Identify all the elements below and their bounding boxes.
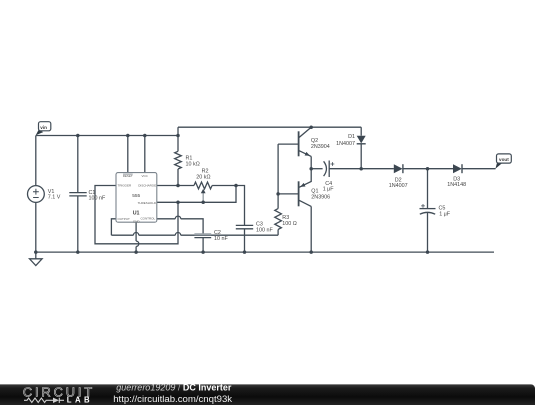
svg-text:1N4007: 1N4007 (389, 183, 408, 189)
svg-text:http://circuitlab.com/cnqt93k: http://circuitlab.com/cnqt93k (113, 394, 232, 405)
svg-text:2N3906: 2N3906 (311, 194, 330, 200)
svg-text:GND: GND (133, 219, 141, 223)
svg-text:1N4007: 1N4007 (336, 141, 355, 147)
svg-text:DISCHARGE: DISCHARGE (138, 184, 156, 188)
svg-text:1N4148: 1N4148 (447, 182, 466, 188)
svg-text:100 nF: 100 nF (256, 228, 273, 234)
svg-text:CONTROL: CONTROL (141, 217, 156, 221)
svg-text:U1: U1 (133, 210, 140, 216)
svg-text:7.1 V: 7.1 V (48, 195, 61, 201)
svg-text:guerrero19209 / DC Inverter: guerrero19209 / DC Inverter (116, 383, 232, 393)
svg-text:TRIGGER: TRIGGER (118, 184, 133, 188)
svg-text:vin: vin (40, 125, 47, 130)
svg-text:THRESHOLD: THRESHOLD (138, 201, 157, 205)
svg-text:VCC: VCC (142, 174, 149, 178)
svg-text:10 nF: 10 nF (214, 236, 228, 242)
svg-text:RESET: RESET (123, 174, 133, 178)
svg-text:1 μF: 1 μF (439, 211, 451, 217)
svg-text:vout: vout (499, 157, 509, 162)
svg-text:100 nF: 100 nF (89, 196, 106, 202)
svg-text:C2: C2 (214, 230, 221, 236)
svg-text:100 Ω: 100 Ω (282, 221, 297, 227)
svg-text:2N3904: 2N3904 (311, 144, 330, 150)
svg-text:OUTPUT: OUTPUT (118, 217, 131, 221)
svg-text:D1: D1 (348, 134, 355, 140)
svg-text:1 μF: 1 μF (323, 187, 335, 193)
svg-text:20 kΩ: 20 kΩ (196, 175, 210, 181)
svg-text:555: 555 (132, 193, 140, 199)
svg-text:LAB: LAB (67, 396, 93, 405)
svg-text:10 kΩ: 10 kΩ (186, 161, 200, 167)
